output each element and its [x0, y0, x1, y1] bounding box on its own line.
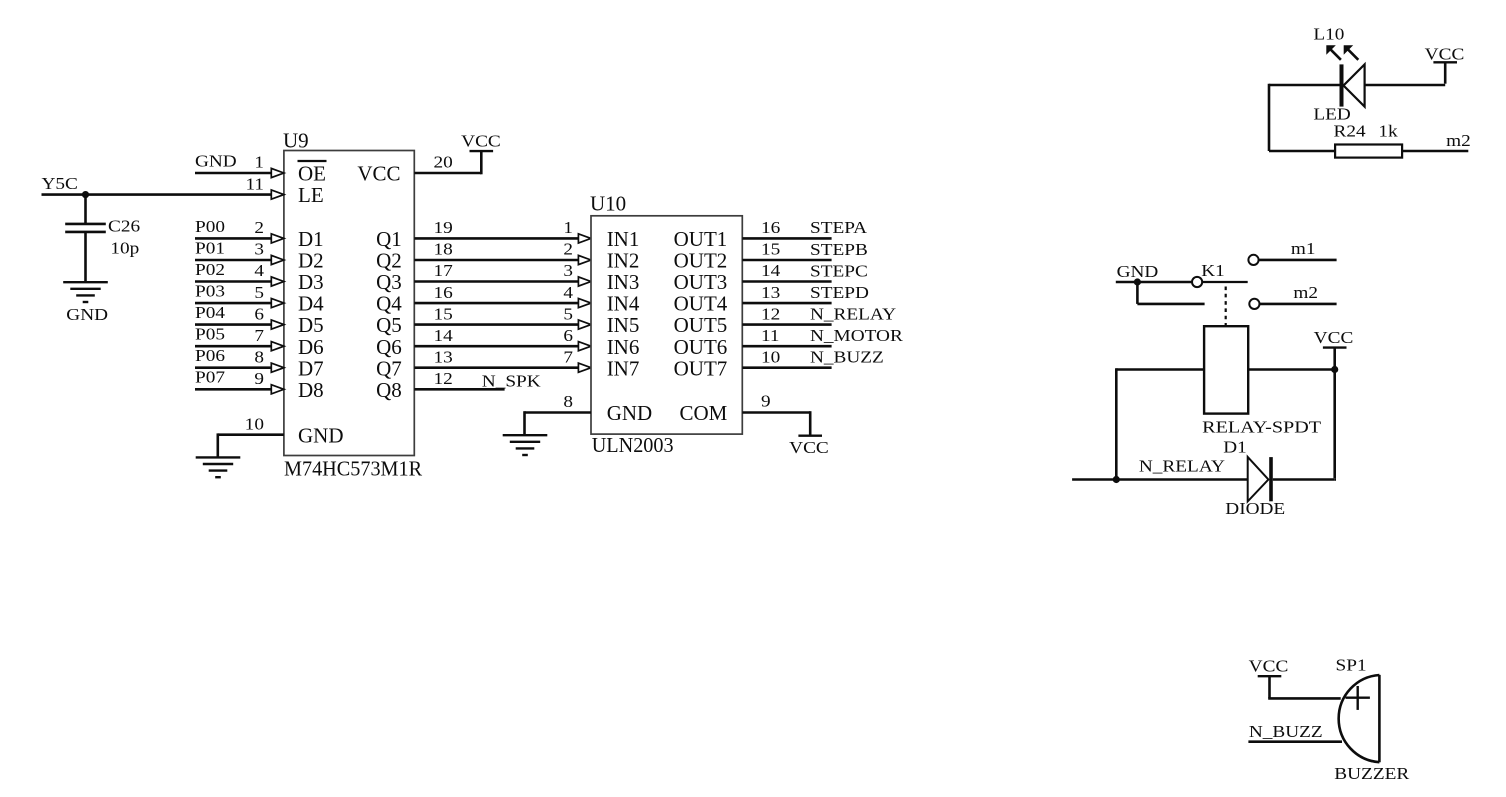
wire U9 Q5 (pin 15) to U10 IN5 — [414, 323, 578, 326]
svg-text:Q4: Q4 — [376, 292, 402, 316]
pin 5 input arrow — [271, 299, 284, 308]
svg-text:11: 11 — [246, 174, 265, 193]
wire C26 bottom lead — [84, 232, 87, 282]
pin 4 input arrow — [271, 277, 284, 286]
wire K1 m2 contact — [1260, 303, 1337, 306]
svg-text:D1: D1 — [1223, 437, 1247, 456]
wire U10 OUT3 (pin 14) net STEPC — [742, 280, 831, 283]
svg-text:5: 5 — [254, 283, 264, 302]
wire U10 OUT6 (pin 11) net N_MOTOR — [742, 345, 831, 348]
svg-text:Q6: Q6 — [376, 335, 402, 359]
svg-text:Q8: Q8 — [376, 378, 402, 402]
wire U9 Q1 (pin 19) to U10 IN1 — [414, 237, 578, 240]
K1 lever arm — [1202, 281, 1247, 283]
diode D1 cathode bar — [1269, 457, 1273, 501]
U10 pin 2 input arrow — [578, 255, 591, 264]
IC U10 ULN2003 body — [591, 216, 742, 434]
svg-text:VCC: VCC — [1425, 45, 1465, 64]
svg-text:OUT6: OUT6 — [674, 335, 728, 359]
svg-text:4: 4 — [254, 261, 264, 280]
LED L10 triangle — [1344, 64, 1365, 106]
svg-text:14: 14 — [761, 261, 781, 280]
svg-text:N_RELAY: N_RELAY — [810, 304, 896, 323]
wire U10 OUT5 (pin 12) net N_RELAY — [742, 323, 831, 326]
svg-text:N_BUZZ: N_BUZZ — [1249, 722, 1323, 741]
svg-text:9: 9 — [254, 369, 264, 388]
svg-text:GND: GND — [298, 423, 344, 447]
wire U10 OUT2 (pin 15) net STEPB — [742, 259, 831, 262]
svg-text:RELAY-SPDT: RELAY-SPDT — [1202, 418, 1321, 437]
svg-text:m2: m2 — [1446, 131, 1471, 150]
svg-text:R24: R24 — [1334, 121, 1367, 140]
wire U9 Q2 (pin 18) to U10 IN2 — [414, 259, 578, 262]
ground symbol below C26 — [63, 281, 108, 283]
wire U9 Q4 (pin 16) to U10 IN4 — [414, 302, 578, 305]
svg-text:7: 7 — [254, 326, 264, 345]
VCC power bar (buzzer) — [1258, 675, 1282, 677]
pin 3 input arrow — [271, 255, 284, 264]
svg-text:17: 17 — [434, 261, 454, 280]
wire left rail to R24 — [1269, 150, 1335, 153]
svg-text:GND: GND — [1117, 262, 1159, 281]
svg-text:10: 10 — [761, 347, 780, 366]
svg-text:OUT7: OUT7 — [674, 356, 728, 380]
svg-text:BUZZER: BUZZER — [1334, 764, 1409, 783]
junction dot on Y5C net — [82, 191, 89, 198]
wire VCC to buzzer plus — [1268, 676, 1271, 698]
wire U9 Q7 (pin 13) to U10 IN7 — [414, 366, 578, 369]
svg-text:16: 16 — [434, 283, 454, 302]
svg-text:4: 4 — [563, 283, 573, 302]
wire net Y5C to U9 pin 11 (LE) — [42, 193, 272, 196]
svg-text:VCC: VCC — [461, 132, 501, 151]
wire net P03 to U9 pin 5 — [195, 302, 271, 305]
wire C26 top lead — [84, 195, 87, 224]
wire left rail down to N_RELAY — [1115, 368, 1118, 479]
wire GND net down — [1136, 282, 1139, 304]
svg-text:IN5: IN5 — [607, 313, 640, 337]
U10 pin 1 input arrow — [578, 234, 591, 243]
svg-text:STEPA: STEPA — [810, 218, 868, 237]
svg-text:Q1: Q1 — [376, 227, 402, 251]
svg-text:D2: D2 — [298, 249, 324, 273]
svg-text:9: 9 — [761, 392, 771, 411]
svg-text:1: 1 — [563, 218, 573, 237]
svg-text:P06: P06 — [195, 346, 225, 365]
svg-text:12: 12 — [434, 369, 453, 388]
svg-text:3: 3 — [563, 261, 573, 280]
VCC power bar (LED) — [1433, 61, 1457, 63]
buzzer SP1 body — [1339, 675, 1380, 762]
pin 2 input arrow — [271, 234, 284, 243]
svg-text:C26: C26 — [108, 216, 141, 235]
svg-text:IN1: IN1 — [607, 227, 640, 251]
svg-text:U9: U9 — [283, 128, 309, 152]
svg-text:P01: P01 — [195, 238, 225, 257]
wire relay coil right lead to VCC — [1248, 368, 1335, 371]
wire U9 pin 10 (GND) to ground — [218, 433, 284, 436]
junction dot on relay GND net — [1134, 278, 1141, 285]
svg-text:U10: U10 — [590, 192, 626, 216]
VCC power bar (U10 pin 9, pointing down) — [798, 435, 822, 437]
wire K1 m1 contact — [1259, 259, 1337, 262]
wire net P01 to U9 pin 3 — [195, 259, 271, 262]
svg-text:8: 8 — [254, 347, 264, 366]
wire net P06 to U9 pin 8 — [195, 366, 271, 369]
VCC power bar (relay) — [1323, 346, 1347, 348]
relay K1 coil body — [1204, 326, 1248, 413]
K1 contact circle m1 — [1248, 255, 1258, 265]
svg-text:L10: L10 — [1313, 25, 1344, 44]
svg-text:D4: D4 — [298, 292, 324, 316]
svg-text:D5: D5 — [298, 313, 324, 337]
svg-text:19: 19 — [434, 218, 453, 237]
wire U9 Q6 (pin 14) to U10 IN6 — [414, 345, 578, 348]
svg-text:ULN2003: ULN2003 — [592, 433, 674, 457]
svg-text:IN6: IN6 — [607, 335, 640, 359]
wire U10 OUT1 (pin 16) net STEPA — [742, 237, 831, 240]
svg-text:15: 15 — [761, 240, 780, 259]
svg-text:P07: P07 — [195, 368, 225, 387]
wire U10 OUT7 (pin 10) net N_BUZZ — [742, 366, 831, 369]
svg-text:IN7: IN7 — [607, 356, 640, 380]
ground symbol at U10 pin 8 — [503, 434, 548, 436]
wire VCC stem (relay) — [1333, 348, 1336, 370]
U10 pin 5 input arrow — [578, 320, 591, 329]
svg-text:GND: GND — [66, 305, 108, 324]
wire GND to K1 pivot — [1116, 281, 1192, 284]
U10 pin 3 input arrow — [578, 277, 591, 286]
resistor R24 body — [1335, 145, 1402, 158]
wire R24 to net m2 — [1402, 150, 1468, 153]
svg-text:11: 11 — [761, 326, 780, 345]
svg-text:P00: P00 — [195, 217, 225, 236]
svg-text:D1: D1 — [298, 227, 324, 251]
svg-text:N_MOTOR: N_MOTOR — [810, 326, 903, 345]
svg-text:1k: 1k — [1378, 121, 1398, 140]
wire U9 pin 1 (OE) from GND label — [195, 172, 271, 175]
svg-text:7: 7 — [563, 347, 573, 366]
wire net P05 to U9 pin 7 — [195, 345, 271, 348]
svg-text:1: 1 — [254, 153, 264, 172]
svg-text:VCC: VCC — [1314, 328, 1354, 347]
svg-text:2: 2 — [563, 240, 573, 259]
svg-text:N_SPK: N_SPK — [482, 371, 542, 390]
svg-text:STEPC: STEPC — [810, 261, 868, 280]
U10 pin 7 input arrow — [578, 363, 591, 372]
svg-text:OE: OE — [298, 162, 326, 186]
svg-text:OUT5: OUT5 — [674, 313, 728, 337]
wire LED anode to VCC stem — [1365, 84, 1446, 87]
junction dot relay VCC — [1331, 366, 1338, 373]
svg-text:GND: GND — [607, 401, 653, 425]
pin 1 input arrow — [271, 168, 284, 177]
wire U10 OUT4 (pin 13) net STEPD — [742, 302, 831, 305]
wire GND net stub right — [1137, 303, 1204, 306]
svg-text:Q7: Q7 — [376, 356, 402, 380]
K1 contact circle m2 — [1249, 299, 1259, 309]
K1 actuator dashed link — [1225, 287, 1227, 327]
svg-text:13: 13 — [434, 347, 453, 366]
LED light arrow 1 — [1328, 47, 1341, 60]
VCC power bar (U9 pin 20) — [470, 150, 494, 152]
svg-text:10: 10 — [245, 414, 264, 433]
wire N_BUZZ to buzzer — [1248, 740, 1342, 743]
svg-text:IN2: IN2 — [607, 249, 640, 273]
svg-text:GND: GND — [195, 151, 237, 170]
pin 11 input arrow — [271, 190, 284, 199]
svg-text:N_RELAY: N_RELAY — [1139, 457, 1225, 476]
svg-text:OUT2: OUT2 — [674, 249, 728, 273]
wire right rail (VCC to N_RELAY) — [1333, 370, 1336, 479]
svg-text:P02: P02 — [195, 260, 225, 279]
svg-text:P05: P05 — [195, 325, 225, 344]
svg-text:18: 18 — [434, 240, 453, 259]
svg-text:OUT1: OUT1 — [674, 227, 728, 251]
svg-text:IN4: IN4 — [607, 292, 640, 316]
svg-text:Q2: Q2 — [376, 249, 402, 273]
svg-text:Y5C: Y5C — [42, 174, 78, 193]
IC U9 M74HC573M1R body — [284, 151, 414, 456]
svg-text:K1: K1 — [1201, 261, 1225, 280]
svg-text:8: 8 — [563, 392, 573, 411]
svg-text:VCC: VCC — [357, 162, 400, 186]
svg-text:3: 3 — [254, 240, 264, 259]
wire LED cathode to left rail — [1269, 84, 1340, 87]
svg-text:m1: m1 — [1291, 239, 1316, 258]
svg-text:DIODE: DIODE — [1225, 499, 1285, 518]
wire net P07 to U9 pin 9 — [195, 388, 271, 391]
svg-text:D8: D8 — [298, 378, 324, 402]
svg-text:6: 6 — [563, 326, 573, 345]
svg-text:Q3: Q3 — [376, 270, 402, 294]
svg-text:VCC: VCC — [1249, 657, 1289, 676]
svg-text:OUT4: OUT4 — [674, 292, 728, 316]
wire left rail down to resistor — [1268, 84, 1271, 151]
wire diode cathode to right rail — [1273, 478, 1335, 481]
svg-text:COM: COM — [679, 401, 727, 425]
svg-text:m2: m2 — [1293, 283, 1318, 302]
svg-text:STEPB: STEPB — [810, 240, 868, 259]
svg-text:OUT3: OUT3 — [674, 270, 728, 294]
svg-text:STEPD: STEPD — [810, 283, 869, 302]
K1 pivot contact circle — [1192, 277, 1202, 287]
pin 8 input arrow — [271, 363, 284, 372]
svg-text:LE: LE — [298, 183, 324, 207]
wire net P00 to U9 pin 2 — [195, 237, 271, 240]
wire U10 pin 8 (GND) to ground — [525, 411, 592, 414]
wire U10 pin 9 (COM) to VCC — [742, 411, 810, 414]
capacitor C26 plates — [65, 223, 106, 226]
svg-text:14: 14 — [434, 326, 454, 345]
svg-text:D3: D3 — [298, 270, 324, 294]
svg-text:2: 2 — [254, 218, 264, 237]
svg-text:16: 16 — [761, 218, 781, 237]
pin 9 input arrow — [271, 385, 284, 394]
svg-text:VCC: VCC — [789, 438, 829, 457]
svg-text:P04: P04 — [195, 303, 225, 322]
svg-text:10p: 10p — [110, 239, 139, 258]
wire drop to ground symbol — [217, 433, 220, 457]
svg-text:D6: D6 — [298, 335, 324, 359]
svg-text:5: 5 — [563, 304, 573, 323]
ground symbol at U9 pin 10 — [196, 456, 241, 458]
U10 pin 4 input arrow — [578, 299, 591, 308]
LED light arrow 2 — [1346, 47, 1359, 60]
wire relay coil left lead — [1116, 368, 1204, 371]
pin 6 input arrow — [271, 320, 284, 329]
pin 7 input arrow — [271, 342, 284, 351]
wire drop to ground (U10) — [523, 411, 526, 435]
svg-text:IN3: IN3 — [607, 270, 640, 294]
svg-text:15: 15 — [434, 304, 453, 323]
svg-text:12: 12 — [761, 304, 780, 323]
svg-text:13: 13 — [761, 283, 780, 302]
U10 pin 6 input arrow — [578, 342, 591, 351]
junction dot N_RELAY — [1113, 476, 1120, 483]
wire U9 pin 20 (VCC) to VCC — [414, 172, 481, 175]
svg-text:6: 6 — [254, 304, 264, 323]
svg-text:D7: D7 — [298, 356, 324, 380]
svg-text:Q5: Q5 — [376, 313, 402, 337]
wire net P04 to U9 pin 6 — [195, 323, 271, 326]
overline over OE — [298, 160, 327, 162]
wire N_RELAY from left — [1072, 478, 1248, 481]
LED L10 cathode bar — [1340, 64, 1344, 106]
diode D1 triangle — [1248, 457, 1269, 502]
buzzer plus sign — [1346, 697, 1370, 699]
wire net P02 to U9 pin 4 — [195, 280, 271, 283]
svg-text:SP1: SP1 — [1336, 655, 1367, 674]
svg-text:M74HC573M1R: M74HC573M1R — [284, 457, 422, 481]
wire net N_SPK on U9 pin 12 (Q8) — [414, 388, 504, 391]
svg-text:20: 20 — [434, 153, 453, 172]
svg-text:P03: P03 — [195, 282, 225, 301]
svg-text:N_BUZZ: N_BUZZ — [810, 348, 884, 367]
wire U9 Q3 (pin 17) to U10 IN3 — [414, 280, 578, 283]
